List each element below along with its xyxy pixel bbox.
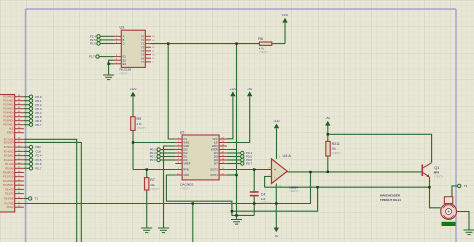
svg-text:P3.3/INT1: P3.3/INT1 [3, 184, 14, 187]
wire terminal to U2 DI pin [160, 156, 175, 158]
svg-text:P2.2/A10: P2.2/A10 [4, 159, 15, 162]
svg-text:CS: CS [183, 137, 187, 141]
svg-text:P3.7/RD: P3.7/RD [5, 203, 14, 206]
svg-text:T1: T1 [35, 197, 39, 201]
svg-text:Y7: Y7 [141, 60, 145, 64]
svg-text:Y6: Y6 [141, 56, 145, 60]
svg-text:XTAL2: XTAL2 [6, 206, 14, 209]
svg-text:R7: R7 [150, 178, 155, 182]
sheet border (purple) top edge [26, 8, 457, 10]
ground below speaker [464, 230, 474, 235]
terminal P0.3 [150, 148, 161, 152]
wire terminal to U2 DI pin [160, 159, 175, 161]
wire P2.5 to U3 B [100, 39, 114, 41]
wire Y2 output to R8 [151, 43, 260, 45]
wire U1 pin to terminal P0.2 [24, 104, 29, 106]
wire Q1 emitter to speaker [430, 177, 441, 208]
speaker label (green box) [442, 222, 456, 226]
terminal P2.6 [90, 42, 100, 46]
terminal P0.1 [29, 99, 42, 103]
svg-text:+5v: +5v [325, 116, 331, 120]
svg-text:P3.4/T0: P3.4/T0 [5, 188, 14, 191]
wire down to ground near U2 [236, 150, 238, 220]
wire op-amp output to Q1 base [287, 171, 422, 173]
svg-text:P0.5/AD5: P0.5/AD5 [3, 116, 14, 119]
svg-text:IOUT2: IOUT2 [210, 168, 218, 172]
IC U1 (8051 microcontroller, partially cut) [0, 95, 24, 213]
svg-text:P0.7: P0.7 [246, 162, 252, 166]
wire U1 pin to terminal P2.6 [24, 163, 29, 165]
junction R9/WR1 [132, 141, 134, 143]
junction output/R211 [327, 171, 329, 173]
svg-text:+5v: +5v [247, 87, 253, 91]
svg-text:+12v: +12v [273, 119, 280, 123]
terminal P0.4 [29, 111, 42, 115]
svg-text:E3: E3 [123, 62, 127, 66]
svg-text:DI1: DI1 [183, 155, 188, 159]
svg-text:+12v: +12v [230, 87, 237, 91]
svg-text:<TEXT>: <TEXT> [332, 151, 342, 155]
junction DGND/netB [231, 210, 233, 212]
wire U1 pin to terminal P0.0 [24, 96, 29, 98]
wire op-amp inverting input [265, 177, 272, 188]
terminal P2.7 [89, 55, 99, 59]
svg-text:Y4: Y4 [141, 49, 145, 53]
svg-text:<TEXT>: <TEXT> [261, 200, 271, 204]
svg-text:1uF: 1uF [261, 197, 266, 201]
wire C4 top [253, 170, 255, 192]
svg-text:U2: U2 [180, 130, 185, 134]
junction netA/branch [192, 202, 194, 204]
wire U1 pin to terminal DIN [24, 146, 29, 148]
terminal DIN [29, 145, 40, 149]
terminal P0.7 [241, 162, 253, 166]
wire net A from U1 to op-amp output [24, 172, 311, 204]
svg-text:RFB: RFB [183, 168, 188, 172]
svg-text:P0.4/AD4: P0.4/AD4 [3, 112, 14, 115]
terminal T1 (left) [28, 197, 38, 201]
wire U2 DGND path [166, 175, 254, 215]
junction Y3/CS [167, 42, 169, 44]
wire U3 E3 tie [109, 63, 114, 65]
junction pin11/netA [275, 202, 277, 204]
wire U1 ALE long vertical [24, 139, 77, 242]
wire R7 top [146, 170, 148, 178]
svg-text:4.7k: 4.7k [137, 122, 143, 126]
svg-text:P2.7: P2.7 [36, 166, 42, 170]
svg-text:VCC: VCC [212, 137, 218, 141]
ground near U2 IOUT1 [231, 220, 242, 225]
junction ground net [235, 214, 237, 216]
svg-text:P2.1/A9: P2.1/A9 [5, 163, 14, 166]
svg-text:P2.7: P2.7 [89, 55, 95, 59]
junction RFB/R7 [146, 168, 148, 170]
wire to U2 WR1 pin [133, 142, 175, 144]
svg-text:U4:A: U4:A [283, 154, 292, 158]
svg-text:+12v: +12v [130, 87, 137, 91]
svg-text:T1: T1 [464, 184, 468, 188]
terminal P0.1 [150, 155, 161, 159]
terminal P0.3 [29, 107, 42, 111]
power -5v op-amp V- [274, 228, 279, 238]
junction output/netA [309, 171, 311, 173]
wire P2.7 to U3 E1 [99, 56, 114, 58]
wire U1 pin to terminal P0.4 [24, 112, 29, 114]
wire U1 pin to terminal P0.7 [24, 124, 29, 126]
svg-text:WAVEHEADER: WAVEHEADER [380, 193, 400, 197]
svg-text:P2.0/A8: P2.0/A8 [5, 167, 14, 170]
svg-text:P0.0: P0.0 [150, 158, 156, 162]
svg-text:LM324: LM324 [289, 185, 298, 189]
wire net B to feedback [232, 187, 318, 211]
wire +5v rail to Q1 collector [328, 134, 432, 162]
svg-text:DI2: DI2 [183, 151, 188, 155]
terminal P0.6 [29, 119, 42, 123]
junction +5v/collector [327, 133, 329, 135]
wire R7 to ground [146, 190, 148, 228]
svg-text:DI4: DI4 [214, 151, 219, 155]
wire +5v to R211 top [327, 126, 329, 142]
wire C4 bottom [253, 196, 255, 215]
svg-text:DI3: DI3 [183, 148, 188, 152]
svg-text:P2.6: P2.6 [90, 42, 96, 46]
svg-text:P2.6/A14: P2.6/A14 [4, 141, 15, 144]
svg-text:PSEN: PSEN [7, 132, 14, 135]
wire U1 pin to terminal P2.5 [24, 159, 29, 161]
wire Y3 net down to U2 CS pin [168, 44, 175, 139]
svg-text:GND: GND [183, 173, 189, 177]
junction C4/netA [253, 202, 255, 204]
svg-text:Y5: Y5 [141, 53, 145, 57]
wire U1 pin to terminal CLK [24, 150, 29, 152]
svg-text:-5v: -5v [274, 234, 279, 238]
terminal P2.4 [90, 34, 100, 38]
terminal P0.0 [150, 158, 161, 162]
ground below U2 AGND [158, 228, 169, 233]
resistor R8 4.7k [258, 37, 272, 54]
svg-text:P0.2/AD2: P0.2/AD2 [3, 104, 14, 107]
terminal P0.6 [241, 158, 253, 162]
svg-text:B: B [123, 38, 125, 42]
svg-text:P2.5/A13: P2.5/A13 [4, 146, 15, 149]
wire U2 ILE pin to +5v [227, 96, 250, 142]
svg-text:C4: C4 [261, 192, 266, 196]
power +12v above R9 [130, 87, 137, 96]
svg-text:R211: R211 [332, 142, 340, 146]
svg-text:P0.7/AD7: P0.7/AD7 [3, 124, 14, 127]
resistor R7 10k [145, 178, 161, 191]
wire up to VCC symbol [284, 23, 286, 44]
svg-text:P0.7: P0.7 [36, 123, 42, 127]
svg-text:VREF: VREF [183, 162, 190, 166]
op-amp U4:A LM324 [268, 154, 299, 193]
terminal P2.6 [29, 162, 42, 166]
svg-text:P0.1/AD1: P0.1/AD1 [3, 100, 14, 103]
svg-text:C: C [123, 42, 125, 46]
svg-text:Y0: Y0 [141, 34, 145, 38]
annotation text WAVEHEADER [380, 193, 401, 201]
IC U3 74LS138 decoder [114, 25, 156, 75]
transistor Q1 NPN [422, 163, 445, 179]
ground below R7 [141, 228, 152, 233]
svg-text:74LS138: 74LS138 [119, 68, 131, 72]
svg-text:Q1: Q1 [434, 165, 440, 170]
power +5v above R211 [325, 116, 331, 125]
svg-text:Y2: Y2 [141, 42, 145, 46]
wire P2.4 to U3 A [100, 35, 114, 37]
svg-text:DI0: DI0 [183, 158, 188, 162]
wire terminal T1 to speaker pin [452, 186, 457, 197]
svg-text:10k: 10k [332, 147, 337, 151]
svg-text:P2.3/A11: P2.3/A11 [4, 155, 14, 158]
wire R8 to VCC rail [272, 43, 285, 45]
junction +input/C4 [253, 168, 255, 170]
wire U3 E2 to ground [109, 60, 114, 75]
svg-text:Y1: Y1 [141, 38, 145, 42]
svg-text:VCC: VCC [282, 13, 289, 17]
svg-text:P3.0/RXD: P3.0/RXD [3, 172, 14, 175]
junction IOUT1/ground net [235, 174, 237, 176]
power VCC [282, 13, 289, 22]
svg-text:DI7: DI7 [214, 162, 219, 166]
wire U2 DI pin to terminal [227, 152, 241, 154]
svg-text:<TEXT>: <TEXT> [150, 187, 160, 191]
power +12v above U2 VCC [230, 87, 237, 96]
svg-text:DI5: DI5 [214, 155, 219, 159]
wire R211 bottom [327, 156, 329, 172]
wire U1 pin to terminal P2.4 [24, 155, 29, 157]
junction netB/feedback [316, 186, 318, 188]
svg-text:P3.1/TXD: P3.1/TXD [3, 176, 14, 179]
wire branch down from net A [192, 204, 194, 243]
wire speaker to ground [457, 212, 470, 231]
ground below U3 [103, 75, 114, 80]
svg-text:IOUT1: IOUT1 [210, 173, 218, 177]
terminal P2.5 [90, 38, 100, 42]
terminal P0.5 [29, 115, 42, 119]
wire U2 DI pin to terminal [227, 163, 241, 165]
svg-text:<TEXT>: <TEXT> [259, 50, 269, 54]
svg-text:P0.0/AD0: P0.0/AD0 [3, 96, 14, 99]
terminal P0.2 [150, 151, 161, 155]
svg-text:R9: R9 [137, 117, 142, 121]
wire U1 pin to terminal T1 [24, 198, 29, 200]
junction Y3/XFER [235, 42, 237, 44]
sheet border (purple) left edge [25, 9, 27, 242]
wire op-amp V- pin 11 [275, 184, 277, 228]
svg-text:<TEXT>: <TEXT> [434, 174, 444, 178]
resistor R9 4.7k [131, 117, 147, 131]
svg-text:<TEXT>: <TEXT> [137, 126, 147, 130]
wire U2 DI pin to terminal [227, 159, 241, 161]
svg-text:E2: E2 [123, 58, 127, 62]
svg-text:DI6: DI6 [214, 158, 219, 162]
svg-text:U3: U3 [120, 25, 125, 29]
terminal P2.7 [29, 166, 42, 170]
power +5v above U2 ILE [247, 87, 253, 96]
wire U1 PSEN long vertical [24, 142, 81, 242]
svg-text:<TEXT>: <TEXT> [119, 71, 129, 75]
svg-text:P3.2/INT0: P3.2/INT0 [3, 180, 14, 183]
terminal P2.4 [29, 154, 42, 158]
IC U2 DAC0832 [175, 130, 227, 190]
svg-text:P3.6/WR: P3.6/WR [4, 198, 14, 201]
svg-text:XFER: XFER [211, 148, 218, 152]
svg-text:P2.4/A12: P2.4/A12 [4, 150, 15, 153]
wire U2 IOUT1 to ground net [227, 174, 237, 176]
wire U2 VCC pin to +12v [227, 96, 233, 139]
wire op-amp V+ pin 4 [276, 128, 278, 159]
svg-text:A: A [123, 34, 125, 38]
speaker [441, 197, 457, 220]
svg-text:GND: GND [183, 144, 189, 148]
svg-text:TPINOUT DIL14: TPINOUT DIL14 [380, 198, 401, 202]
sheet border (purple) right edge [455, 9, 457, 242]
terminal P2.5 [29, 158, 42, 162]
wire +12v to R9 top [132, 96, 134, 116]
svg-text:WR1: WR1 [183, 141, 189, 145]
svg-text:P3.5/T1: P3.5/T1 [5, 193, 14, 196]
svg-text:ILE: ILE [214, 141, 218, 145]
terminal P0.7 [29, 123, 42, 127]
svg-text:+: + [274, 168, 276, 172]
wire U2 IOUT2 to op-amp + input [227, 169, 272, 171]
svg-text:P0.6/AD6: P0.6/AD6 [3, 120, 14, 123]
capacitor C4 [250, 192, 271, 204]
svg-text:4.7k: 4.7k [259, 47, 265, 51]
wire P2.6 to U3 C [100, 43, 114, 45]
wire U2 DI pin to terminal [227, 156, 241, 158]
wire U2 AGND to ground [164, 146, 176, 228]
svg-text:NPN: NPN [434, 171, 440, 175]
svg-text:R8: R8 [258, 37, 263, 41]
wire U1 pin to terminal P0.6 [24, 120, 29, 122]
wire U1 pin to terminal P0.5 [24, 116, 29, 118]
svg-text:DAC0832: DAC0832 [180, 182, 193, 186]
junction E2/E3 [107, 63, 109, 65]
svg-text:<TEXT>: <TEXT> [180, 187, 190, 191]
svg-text:WR2: WR2 [212, 144, 218, 148]
svg-text:-: - [274, 176, 275, 180]
wire to U2 RFB pin [133, 169, 175, 171]
wire R9 bottom vertical [132, 130, 134, 169]
terminal CLK [29, 150, 41, 154]
wire terminal to U2 DI pin [160, 152, 175, 154]
terminal P0.2 [29, 103, 42, 107]
svg-text:P0.3/AD3: P0.3/AD3 [3, 108, 14, 111]
terminal P0.4 [241, 151, 253, 155]
svg-text:10k: 10k [150, 183, 155, 187]
svg-text:Y3: Y3 [141, 45, 145, 49]
power +12v op-amp V+ [273, 119, 280, 128]
terminal P0.0 [29, 95, 42, 99]
terminal T1 (right) [458, 184, 468, 188]
wire U1 pin to terminal P0.1 [24, 100, 29, 102]
junction emitter/feedback [428, 186, 430, 188]
resistor R211 10k [326, 141, 342, 156]
wire U1 pin to terminal P2.7 [24, 167, 29, 169]
terminal P0.5 [241, 155, 253, 159]
svg-text:<TEXT>: <TEXT> [289, 189, 299, 193]
wire U1 pin to terminal P0.3 [24, 108, 29, 110]
wire Y3 net down to U2 XFER pin [227, 44, 237, 150]
wire feedback from emitter [265, 186, 430, 188]
wire terminal to U2 DI pin [160, 149, 175, 151]
svg-text:E1: E1 [123, 55, 127, 59]
svg-text:ALE: ALE [9, 128, 14, 131]
